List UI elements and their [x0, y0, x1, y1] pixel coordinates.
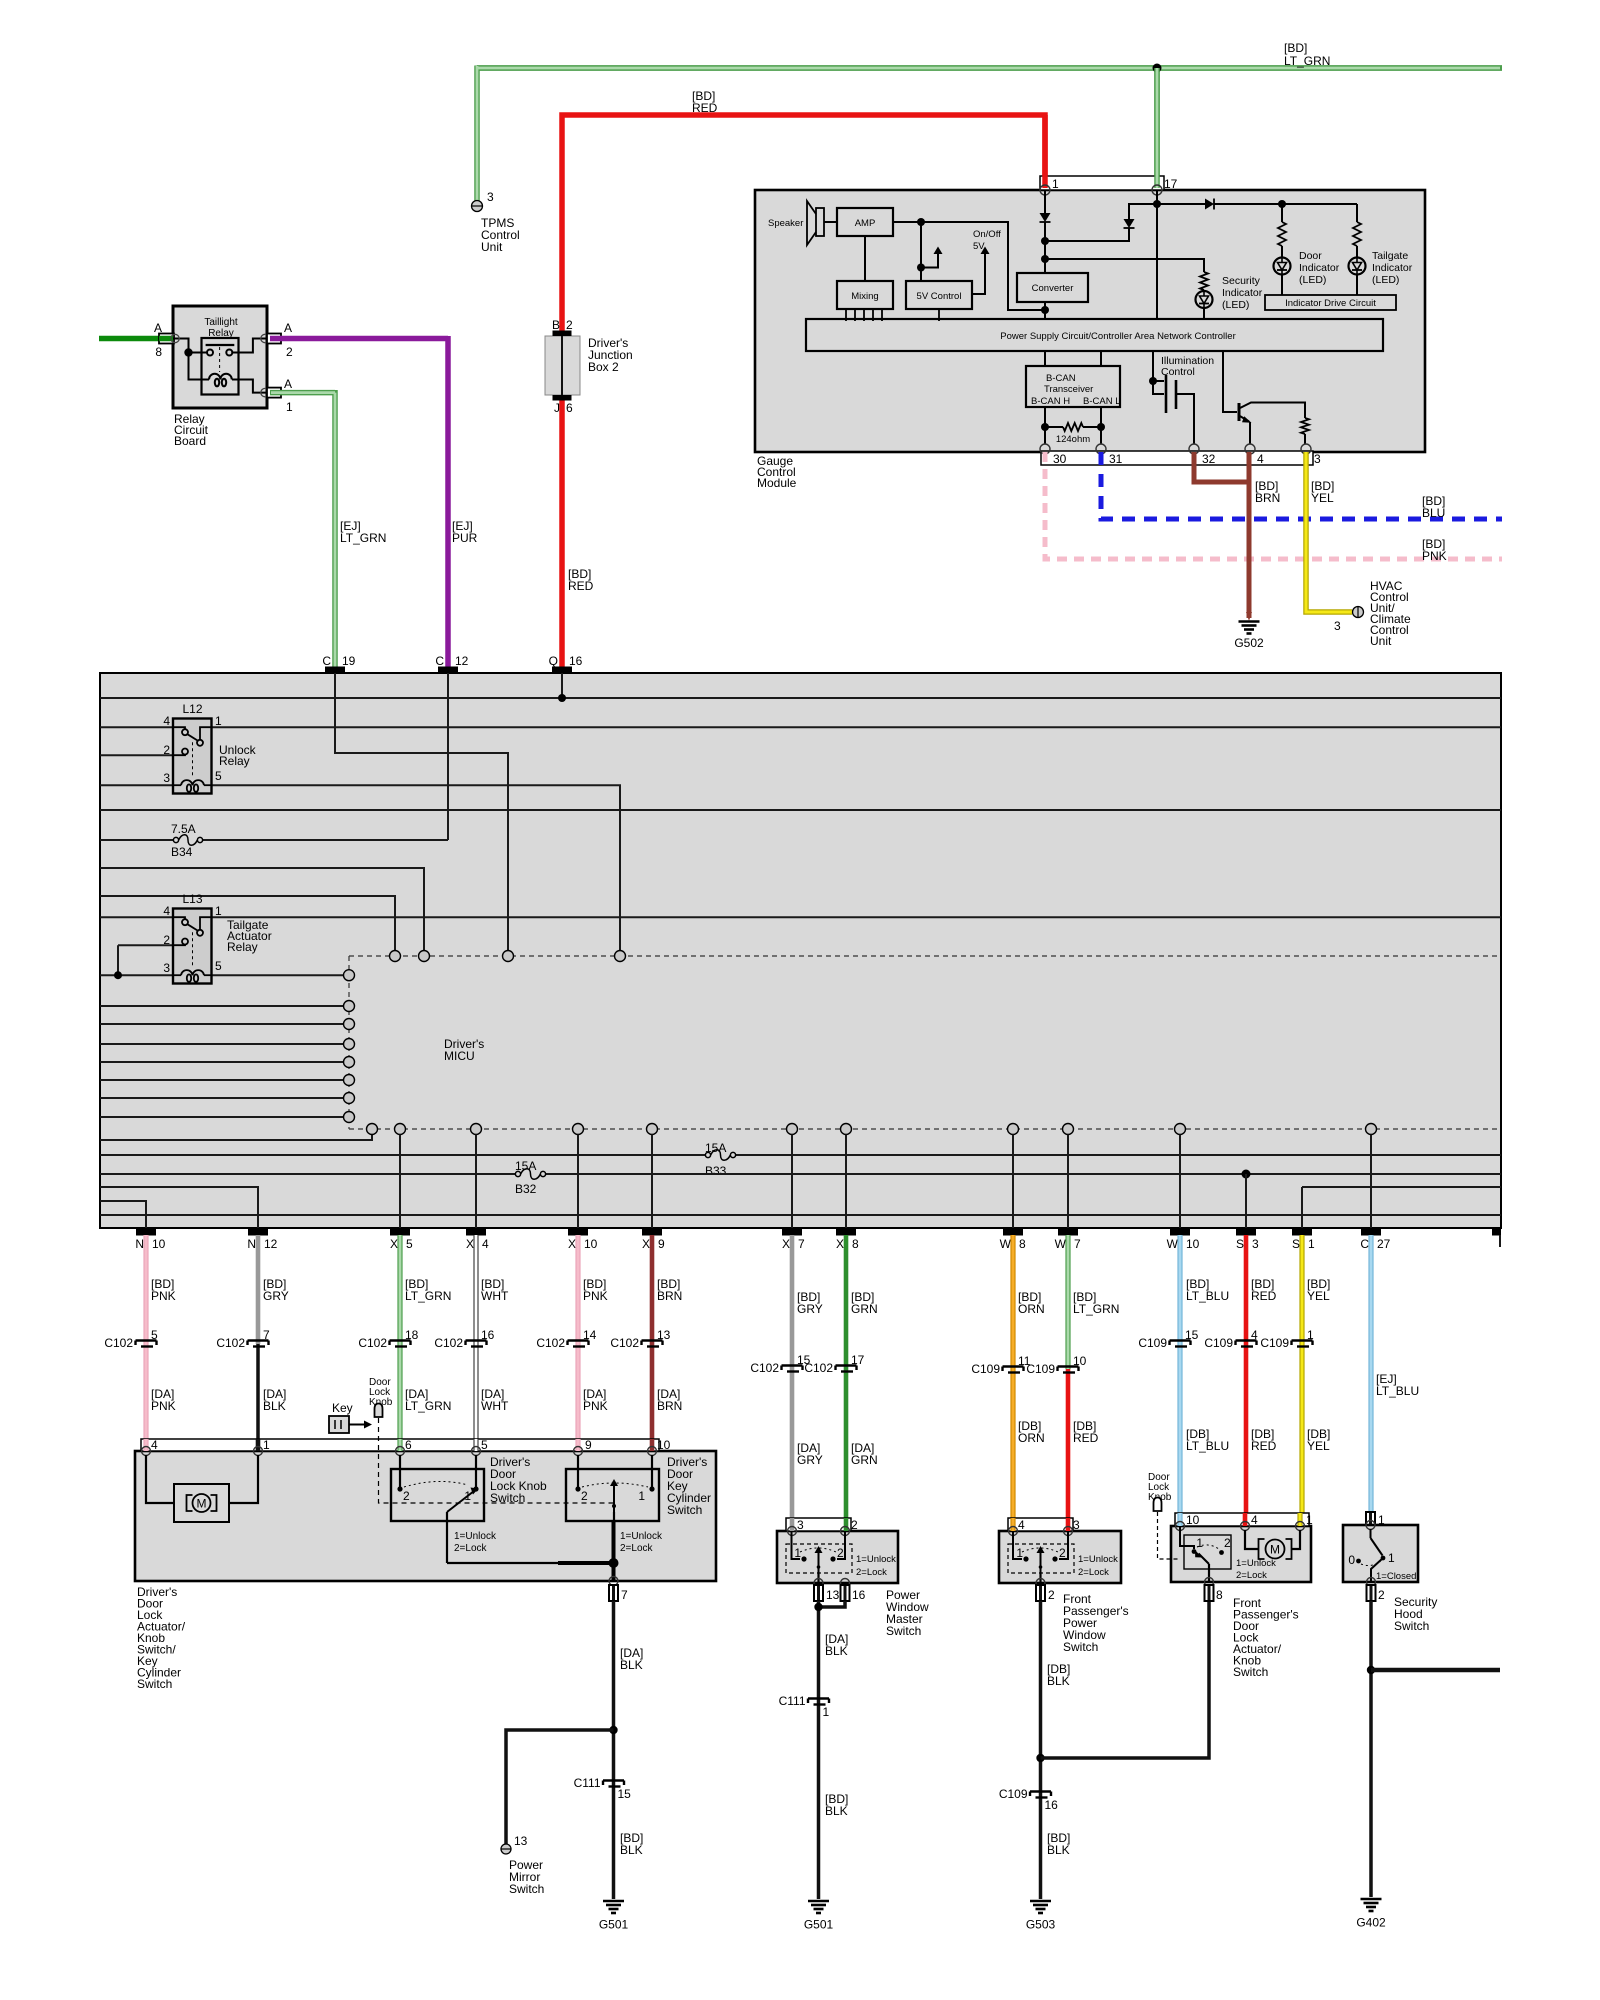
- svg-text:2: 2: [566, 318, 573, 332]
- svg-text:BLK: BLK: [825, 1644, 848, 1658]
- svg-text:PUR: PUR: [452, 531, 478, 545]
- svg-text:1: 1: [1196, 1536, 1203, 1550]
- relay inner box: [202, 338, 239, 395]
- connector pin 2 (security hood): [1367, 1585, 1376, 1601]
- svg-text:Mixing: Mixing: [851, 291, 878, 302]
- svg-text:BLK: BLK: [825, 1804, 848, 1818]
- svg-text:YEL: YEL: [1311, 491, 1334, 505]
- node dot (1045,427): [1041, 423, 1049, 431]
- node dot (1045,310): [1041, 306, 1049, 314]
- svg-text:B-CAN H: B-CAN H: [1031, 396, 1070, 407]
- connector C111 pin 15: [574, 1776, 632, 1801]
- node MICU input (349,1062): [344, 1057, 355, 1068]
- svg-text:6: 6: [405, 1438, 412, 1452]
- wire AMP-Mixing: [864, 236, 866, 281]
- connector pin 13 (PWMS): [814, 1585, 823, 1601]
- svg-text:1=Unlock: 1=Unlock: [620, 1531, 663, 1542]
- taillight relay internals: [173, 339, 267, 393]
- svg-text:GRY: GRY: [797, 1302, 823, 1316]
- svg-text:5: 5: [406, 1237, 413, 1251]
- motor M FP door lock: [1245, 1530, 1300, 1559]
- svg-text:2=Lock: 2=Lock: [620, 1543, 654, 1554]
- Power Window Master Switch box: [777, 1531, 898, 1583]
- terminal A1 (lt green): [267, 388, 281, 398]
- svg-text:C109: C109: [1138, 1336, 1167, 1350]
- svg-text:1: 1: [1306, 1513, 1313, 1527]
- wire B-CAN L column: [1100, 351, 1102, 444]
- svg-text:S: S: [1236, 1237, 1244, 1251]
- svg-text:32: 32: [1202, 452, 1216, 466]
- svg-text:7: 7: [798, 1237, 805, 1251]
- svg-text:2: 2: [403, 1489, 410, 1503]
- wire MICU output drop (792): [791, 1135, 793, 1229]
- svg-text:Unit: Unit: [1370, 634, 1392, 648]
- mixing output stubs: [846, 309, 882, 321]
- connector N 10: [135, 1229, 165, 1251]
- svg-text:4: 4: [1018, 1518, 1025, 1532]
- svg-text:B-CAN: B-CAN: [1046, 373, 1076, 384]
- node dot (1282,204): [1278, 200, 1286, 208]
- label Security Indicator (LED): [1222, 275, 1263, 311]
- relay L12: [163, 702, 222, 794]
- node dot mosfet gate: [1149, 377, 1157, 385]
- connector X 9: [642, 1229, 665, 1251]
- svg-text:2: 2: [1048, 1588, 1055, 1602]
- svg-text:Transceiver: Transceiver: [1044, 384, 1093, 395]
- bus line N10: [100, 1201, 146, 1228]
- connector C102 pin 15: [750, 1353, 810, 1375]
- connector pin 2 (FPPWS): [1036, 1585, 1045, 1601]
- svg-text:LT_GRN: LT_GRN: [1284, 54, 1330, 68]
- relay coil: [209, 374, 232, 387]
- node MICU input (508): [503, 951, 514, 962]
- svg-text:L12: L12: [182, 702, 202, 716]
- bus line L13 pins 4/1: [100, 916, 1501, 918]
- svg-text:10: 10: [1186, 1237, 1200, 1251]
- svg-text:1: 1: [1052, 177, 1059, 191]
- svg-text:C109: C109: [1260, 1336, 1289, 1350]
- node dot antenna branch: [917, 264, 925, 272]
- wire [EJ] PUR: [270, 336, 448, 668]
- wire X8 GRN: [844, 1235, 849, 1531]
- wire security hood to G402: [1369, 1601, 1373, 1897]
- svg-text:4: 4: [163, 714, 170, 728]
- node dot (1045,241): [1041, 237, 1049, 245]
- node dot (1101,427): [1097, 423, 1105, 431]
- svg-text:C102: C102: [610, 1336, 639, 1350]
- svg-text:J: J: [554, 401, 560, 415]
- node dot FP join: [1036, 1754, 1044, 1762]
- wire N12 [BD] GRY: [256, 1235, 261, 1344]
- svg-text:LT_GRN: LT_GRN: [405, 1289, 451, 1303]
- svg-text:1: 1: [286, 400, 293, 414]
- pin 31: [1096, 444, 1106, 454]
- label Power Window Master Switch: [886, 1588, 929, 1638]
- svg-text:2: 2: [1059, 1546, 1066, 1560]
- svg-text:LT_BLU: LT_BLU: [1376, 1384, 1419, 1398]
- svg-text:0: 0: [1348, 1553, 1355, 1567]
- bus line L13 pin2 branch: [118, 945, 173, 975]
- bus line L12 pin2: [100, 754, 173, 756]
- svg-text:10: 10: [584, 1237, 598, 1251]
- node MICU output (1013): [1008, 1124, 1019, 1135]
- wire to diode D3: [1157, 203, 1205, 205]
- pin 4: [1245, 444, 1255, 454]
- wire X4 WHT: [473, 1235, 478, 1451]
- resistor (door indicator): [1281, 204, 1283, 222]
- wire S3 drop: [1245, 1174, 1247, 1228]
- svg-text:8: 8: [1216, 1588, 1223, 1602]
- svg-text:RED: RED: [692, 101, 718, 115]
- label Tailgate Indicator (LED): [1372, 250, 1413, 286]
- svg-text:10: 10: [657, 1438, 671, 1452]
- node MICU input (349,1080): [344, 1075, 355, 1086]
- svg-text:12: 12: [264, 1237, 278, 1251]
- label Security Hood Switch: [1394, 1595, 1437, 1633]
- svg-text:4: 4: [1251, 1328, 1258, 1342]
- B-CAN transceiver box: [1026, 366, 1120, 407]
- driver's door key cylinder switch: [566, 1455, 659, 1563]
- svg-text:1=Unlock: 1=Unlock: [856, 1554, 896, 1565]
- svg-text:5: 5: [151, 1328, 158, 1342]
- wire MICU output drop (1068): [1067, 1135, 1069, 1229]
- ground G402: [1361, 1899, 1382, 1911]
- wire S3 RED: [1244, 1235, 1249, 1526]
- svg-text:16: 16: [1045, 1798, 1059, 1812]
- connector X 10: [568, 1229, 598, 1251]
- wire [BD] BRN to G502: [1194, 452, 1249, 618]
- wire MICU output drop (652): [651, 1135, 653, 1229]
- svg-text:13: 13: [514, 1834, 528, 1848]
- svg-text:Indicator Drive Circuit: Indicator Drive Circuit: [1285, 298, 1376, 309]
- bus stub line y=1117: [100, 1116, 344, 1118]
- wire FPPWS to G503: [1039, 1601, 1043, 1899]
- wire MICU output drop (846): [845, 1135, 847, 1229]
- pin 32: [1189, 444, 1199, 454]
- wire pin1 chain: [1044, 190, 1046, 213]
- node MICU output (476): [471, 1124, 482, 1135]
- svg-text:2=Lock: 2=Lock: [1236, 1570, 1267, 1581]
- node MICU output (652): [647, 1124, 658, 1135]
- svg-text:7.5A: 7.5A: [171, 822, 196, 836]
- svg-text:LT_GRN: LT_GRN: [1073, 1302, 1119, 1316]
- connector C102 pin 16: [434, 1328, 494, 1350]
- svg-text:C111: C111: [779, 1694, 806, 1708]
- wire [EJ] LT_GRN: [270, 390, 335, 668]
- LED door indicator: [1274, 258, 1291, 275]
- svg-text:B33: B33: [705, 1164, 727, 1178]
- pin 17: [1152, 185, 1162, 195]
- node MICU output (1180): [1175, 1124, 1186, 1135]
- wire to power mirror switch: [506, 1730, 614, 1844]
- antenna 2: [972, 247, 990, 295]
- svg-text:10: 10: [1186, 1513, 1200, 1527]
- MOSFET illumination control: [1153, 351, 1194, 444]
- diode D2: [1045, 219, 1135, 241]
- svg-text:Switch: Switch: [1063, 1640, 1098, 1654]
- node dot power mirror branch: [609, 1726, 617, 1734]
- svg-text:1: 1: [215, 904, 222, 918]
- svg-text:BLK: BLK: [620, 1658, 643, 1672]
- Driver's Door Lock Actuator box: [135, 1451, 716, 1581]
- wire S1 YEL: [1299, 1235, 1304, 1526]
- connector C102 pin 13: [610, 1328, 670, 1350]
- svg-text:1: 1: [464, 1489, 471, 1503]
- svg-text:BLU: BLU: [1422, 506, 1445, 520]
- svg-text:WHT: WHT: [481, 1289, 509, 1303]
- bus line to MICU in (395): [100, 896, 395, 951]
- svg-text:18: 18: [405, 1328, 419, 1342]
- Driver's MICU dashed boundary: [349, 956, 1501, 1129]
- connector pin 7 (driver door): [609, 1585, 618, 1601]
- svg-text:9: 9: [658, 1237, 665, 1251]
- wire dark green into relay board: [99, 336, 165, 342]
- svg-text:C102: C102: [536, 1336, 565, 1350]
- svg-text:13: 13: [826, 1588, 840, 1602]
- connector C109 pin 16: [999, 1787, 1058, 1812]
- Front Passenger's Power Window Switch box: [999, 1531, 1121, 1583]
- connector W 7: [1055, 1229, 1081, 1251]
- connector S 3: [1236, 1229, 1259, 1251]
- svg-text:L13: L13: [182, 892, 202, 906]
- svg-text:M: M: [197, 1497, 207, 1511]
- svg-text:C102: C102: [104, 1336, 133, 1350]
- wire [BD] YEL: [1306, 452, 1352, 612]
- svg-text:RED: RED: [568, 579, 594, 593]
- bus stub to (372) output: [100, 1135, 372, 1141]
- svg-text:PNK: PNK: [151, 1399, 176, 1413]
- node MICU output (578): [573, 1124, 584, 1135]
- svg-text:C109: C109: [1204, 1336, 1233, 1350]
- fuse B33 15A: [705, 1141, 736, 1178]
- svg-text:17: 17: [1164, 177, 1178, 191]
- svg-text:C102: C102: [216, 1336, 245, 1350]
- svg-text:X: X: [466, 1237, 474, 1251]
- Converter box: [1017, 273, 1088, 302]
- wire branch to right edge: [1371, 1668, 1500, 1673]
- svg-text:4: 4: [1257, 452, 1264, 466]
- svg-text:G502: G502: [1234, 636, 1264, 650]
- wire MICU output drop (400): [399, 1135, 401, 1229]
- motor M driver door lock: [146, 1455, 258, 1522]
- key symbol: [329, 1401, 372, 1433]
- label HVAC Control Unit/Climate Control Unit: [1370, 579, 1411, 648]
- wire to diode D2: [1129, 204, 1157, 219]
- node dot Q16/bus1: [558, 694, 566, 702]
- node MICU input (349,1117): [344, 1112, 355, 1123]
- svg-text:Indicator: Indicator: [1372, 262, 1413, 274]
- svg-text:BRN: BRN: [657, 1399, 682, 1413]
- svg-text:16: 16: [569, 654, 583, 668]
- connector C109 pin 4: [1204, 1328, 1258, 1350]
- svg-text:YEL: YEL: [1307, 1439, 1330, 1453]
- svg-text:C109: C109: [971, 1362, 1000, 1376]
- svg-text:Box 2: Box 2: [588, 360, 619, 374]
- svg-text:Relay: Relay: [227, 940, 258, 954]
- connector strip (driver door): [141, 1439, 659, 1451]
- svg-text:(LED): (LED): [1299, 274, 1326, 286]
- svg-text:(LED): (LED): [1222, 299, 1249, 311]
- ground G503: [1030, 1901, 1051, 1913]
- bus line B32: [100, 1173, 1501, 1175]
- node junction dot green/pin17: [1153, 64, 1162, 73]
- connector C102 pin 5: [104, 1328, 158, 1350]
- svg-text:Security: Security: [1222, 275, 1261, 287]
- svg-text:1: 1: [823, 1705, 830, 1719]
- svg-text:3: 3: [797, 1518, 804, 1532]
- node dot AMP branch: [917, 218, 925, 226]
- AMP box: [837, 208, 893, 236]
- svg-text:16: 16: [852, 1588, 866, 1602]
- Indicator Drive Circuit box: [1265, 295, 1396, 310]
- svg-text:RED: RED: [1073, 1431, 1099, 1445]
- svg-text:X: X: [782, 1237, 790, 1251]
- svg-text:On/Off: On/Off: [973, 229, 1001, 240]
- connector W 10: [1167, 1229, 1200, 1251]
- svg-text:5V Control: 5V Control: [917, 291, 962, 302]
- svg-text:GRY: GRY: [797, 1453, 823, 1467]
- node MICU output (400): [395, 1124, 406, 1135]
- svg-text:2: 2: [581, 1489, 588, 1503]
- svg-text:Converter: Converter: [1032, 283, 1074, 294]
- wire X7 GRY: [790, 1235, 795, 1531]
- svg-text:7: 7: [263, 1328, 270, 1342]
- svg-text:5: 5: [215, 769, 222, 783]
- node dot (1045,259): [1041, 255, 1049, 263]
- terminal 3 HVAC: [1353, 607, 1364, 618]
- svg-text:30: 30: [1053, 452, 1067, 466]
- wire branch to 5V control: [920, 222, 922, 281]
- svg-text:W: W: [1167, 1237, 1179, 1251]
- svg-text:10: 10: [1073, 1354, 1087, 1368]
- svg-text:4: 4: [482, 1237, 489, 1251]
- wire C12 internal: [447, 673, 449, 840]
- svg-text:3: 3: [487, 190, 494, 204]
- svg-text:Switch: Switch: [1394, 1619, 1429, 1633]
- svg-text:[BD]: [BD]: [1284, 41, 1307, 55]
- label [BD] RED (top): [692, 89, 718, 115]
- wire PWMS pins 13/16 join: [819, 1601, 846, 1899]
- svg-text:Unit: Unit: [481, 240, 503, 254]
- node dot S3 junction: [1242, 1170, 1251, 1179]
- fuse B32 15A: [515, 1159, 546, 1196]
- svg-text:15: 15: [1185, 1328, 1199, 1342]
- bus line 2 (L12 pins 4/1): [100, 726, 1501, 728]
- svg-text:BLK: BLK: [1047, 1843, 1070, 1857]
- svg-text:3: 3: [163, 961, 170, 975]
- wire W8 ORN: [1010, 1235, 1015, 1531]
- wire FP door lock to join: [1041, 1601, 1210, 1758]
- bus stub line y=1024: [100, 1023, 344, 1025]
- svg-text:C102: C102: [358, 1336, 387, 1350]
- bus stub line y=1044: [100, 1043, 344, 1045]
- svg-text:BLK: BLK: [620, 1843, 643, 1857]
- svg-text:3: 3: [1314, 452, 1321, 466]
- terminal 13 power mirror switch: [501, 1844, 511, 1854]
- svg-text:G402: G402: [1356, 1916, 1386, 1930]
- svg-text:Door: Door: [1299, 250, 1322, 262]
- LED security indicator: [1196, 291, 1213, 308]
- svg-text:27: 27: [1377, 1237, 1391, 1251]
- bus line 1: [100, 697, 1501, 699]
- connector C102 pin 18: [358, 1328, 418, 1350]
- svg-text:A: A: [284, 321, 292, 335]
- svg-text:Tailgate: Tailgate: [1372, 250, 1408, 262]
- wire X9 BRN: [650, 1235, 655, 1451]
- svg-text:2=Lock: 2=Lock: [856, 1567, 887, 1578]
- svg-text:PNK: PNK: [151, 1289, 176, 1303]
- node MICU input (349,1098): [344, 1093, 355, 1104]
- svg-text:10: 10: [152, 1237, 166, 1251]
- svg-text:1: 1: [794, 1546, 801, 1560]
- security indicator branch: [1045, 259, 1204, 272]
- wire MICU output drop (1180): [1179, 1135, 1181, 1229]
- svg-text:C102: C102: [434, 1336, 463, 1350]
- bus stub line y=1006: [100, 1005, 344, 1007]
- Power Supply box: [806, 319, 1383, 351]
- svg-text:LT_GRN: LT_GRN: [405, 1399, 451, 1413]
- svg-text:W: W: [1000, 1237, 1012, 1251]
- relay L13: [163, 892, 222, 984]
- node MICU output (846): [841, 1124, 852, 1135]
- svg-text:3: 3: [1334, 619, 1341, 633]
- label [BD] LT_GRN: [1284, 41, 1330, 68]
- svg-text:PNK: PNK: [1422, 549, 1447, 563]
- svg-text:1: 1: [1307, 1328, 1314, 1342]
- svg-text:MICU: MICU: [444, 1049, 475, 1063]
- svg-text:124ohm: 124ohm: [1056, 434, 1090, 445]
- bus line to MICU in (424): [100, 868, 424, 951]
- node dot L13 coil branch: [114, 971, 122, 979]
- svg-text:ORN: ORN: [1018, 1431, 1045, 1445]
- svg-text:1: 1: [1016, 1546, 1023, 1560]
- svg-text:Relay: Relay: [219, 754, 250, 768]
- svg-text:PNK: PNK: [583, 1399, 608, 1413]
- Front Passenger's Door Lock Actuator box: [1171, 1526, 1311, 1582]
- svg-text:9: 9: [585, 1438, 592, 1452]
- svg-text:Power Supply Circuit/Controlle: Power Supply Circuit/Controller Area Net…: [1000, 331, 1235, 342]
- connector 1 security hood: [1366, 1512, 1375, 1525]
- svg-text:2: 2: [837, 1546, 844, 1560]
- svg-text:16: 16: [481, 1328, 495, 1342]
- ground G501: [808, 1901, 829, 1913]
- node dot security branch: [1367, 1666, 1375, 1674]
- wire X10 PNK: [575, 1235, 580, 1451]
- svg-text:N: N: [135, 1237, 144, 1251]
- ground G501: [603, 1901, 624, 1913]
- connector X 4: [466, 1229, 489, 1251]
- svg-text:WHT: WHT: [481, 1399, 509, 1413]
- connector strip pins 1/17: [1040, 176, 1164, 190]
- svg-text:8: 8: [852, 1237, 859, 1251]
- svg-text:M: M: [1270, 1543, 1280, 1557]
- connector C109 pin 15: [1138, 1328, 1198, 1350]
- svg-text:2: 2: [163, 933, 170, 947]
- svg-text:3: 3: [1073, 1518, 1080, 1532]
- connector pin 16 (PWMS): [841, 1585, 850, 1601]
- speaker: [807, 201, 824, 245]
- wire converter bottom: [1044, 302, 1046, 319]
- svg-text:Switch: Switch: [1233, 1665, 1268, 1679]
- relay pin labels: [154, 321, 293, 414]
- Driver's MICU box: [100, 673, 1501, 1228]
- svg-text:A: A: [284, 377, 292, 391]
- svg-text:2=Lock: 2=Lock: [1078, 1567, 1109, 1578]
- label Relay Circuit Board: [174, 412, 209, 448]
- 5V Control box: [906, 281, 972, 309]
- dashed link door lock knob 1 / key: [379, 1418, 615, 1503]
- ground G502: [1239, 622, 1260, 634]
